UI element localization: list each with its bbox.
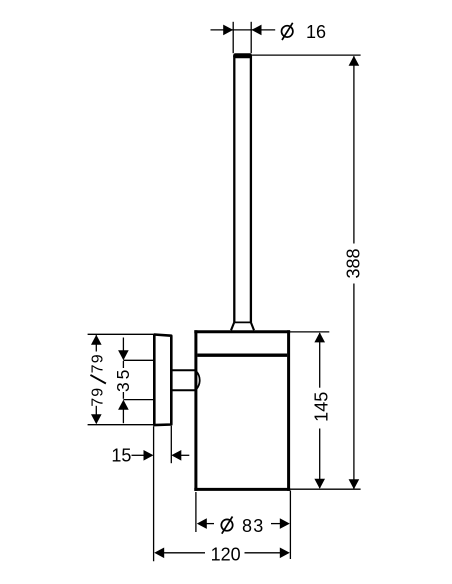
svg-text:83: 83 bbox=[242, 516, 264, 536]
svg-text:145: 145 bbox=[311, 392, 331, 422]
svg-text:16: 16 bbox=[306, 22, 326, 42]
svg-text:79: 79 bbox=[90, 353, 107, 373]
svg-text:120: 120 bbox=[211, 545, 241, 565]
svg-text:15: 15 bbox=[111, 446, 131, 466]
svg-text:79: 79 bbox=[90, 387, 107, 407]
svg-text:35: 35 bbox=[113, 367, 133, 392]
svg-text:388: 388 bbox=[344, 248, 364, 278]
